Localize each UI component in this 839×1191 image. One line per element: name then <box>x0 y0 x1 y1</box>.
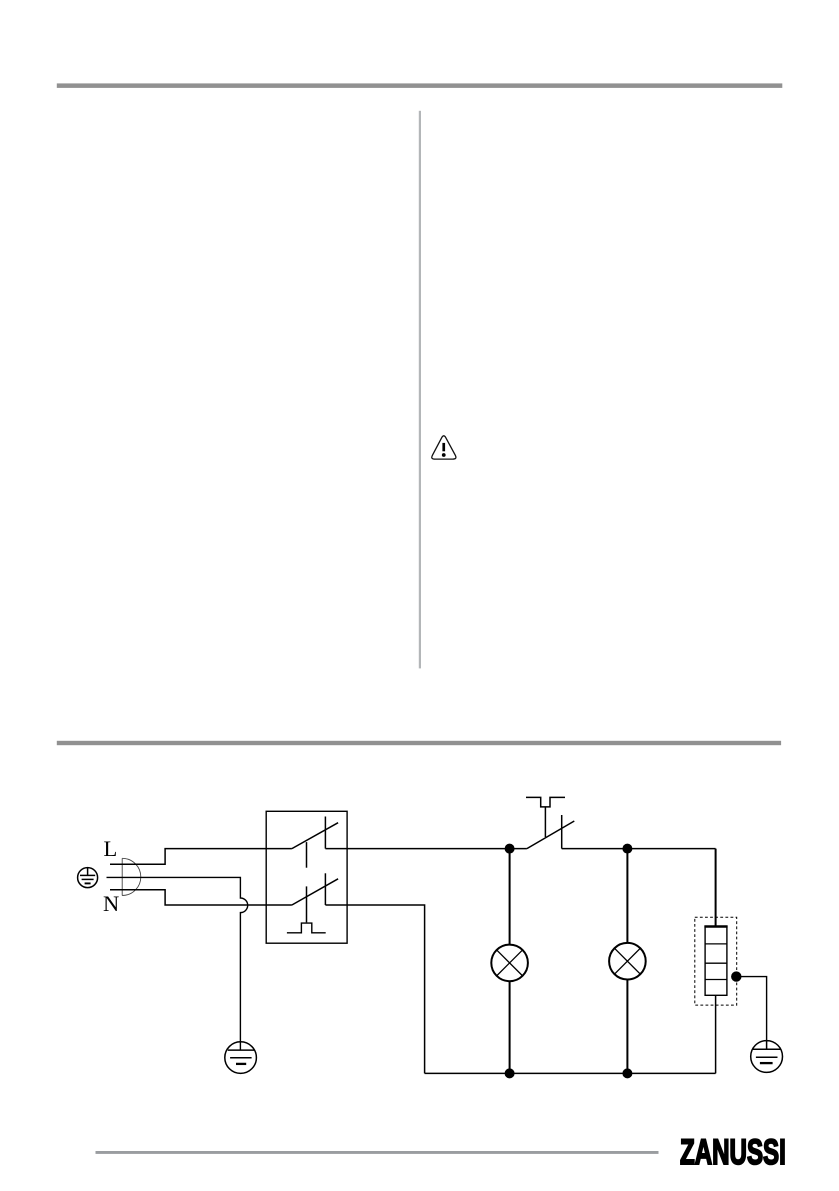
ground right <box>751 1041 783 1073</box>
node E lamp2 bottom <box>622 1068 632 1078</box>
wire bottom bus <box>425 1072 716 1074</box>
column divider <box>419 111 421 669</box>
label L <box>104 836 118 861</box>
bottom rule <box>96 1151 659 1154</box>
wire E earth with hop over N <box>107 877 248 1050</box>
section rule <box>57 741 781 745</box>
node C heater tap <box>731 971 741 981</box>
heater enclosure dashed box <box>695 917 737 1005</box>
wire top rail from thermostat to heater corner <box>562 848 716 850</box>
svg-text:L: L <box>104 836 118 861</box>
wire L from plug to switch box <box>110 849 292 865</box>
thermostat switch S2 <box>526 797 574 848</box>
ground left <box>225 1042 257 1074</box>
lamp LP1 <box>491 945 528 982</box>
node D lamp1 bottom <box>505 1068 515 1078</box>
wire lamp2 bottom lead <box>626 980 628 1074</box>
wire N return from S1b to bottom bus <box>325 905 424 1073</box>
wire lamp1 bottom lead <box>509 981 511 1073</box>
earth symbol at plug <box>78 868 98 888</box>
wire earth tap to right ground <box>736 977 766 1041</box>
plug P1 <box>122 858 141 895</box>
warning icon <box>432 436 456 459</box>
wire heater feed <box>715 849 717 927</box>
svg-text:N: N <box>103 891 119 916</box>
node A <box>505 844 515 854</box>
wire lamp1 top lead <box>509 849 511 945</box>
wire top rail from S1a to thermostat <box>325 848 527 850</box>
wire N from plug to switch box <box>110 890 292 905</box>
wire lamp2 top lead <box>626 849 628 943</box>
top rule <box>57 83 783 88</box>
push-button actuator <box>287 923 326 933</box>
wire heater bottom lead <box>715 995 717 1073</box>
lamp LP2 <box>609 943 646 980</box>
heating element R1 <box>704 926 727 995</box>
switch S1b bottom pole <box>292 873 338 922</box>
node B <box>622 844 632 854</box>
switch S1a top pole <box>292 817 338 868</box>
label N <box>103 891 119 916</box>
svg-text:ZANUSSI: ZANUSSI <box>680 1132 786 1172</box>
switch box S1 <box>266 811 347 943</box>
